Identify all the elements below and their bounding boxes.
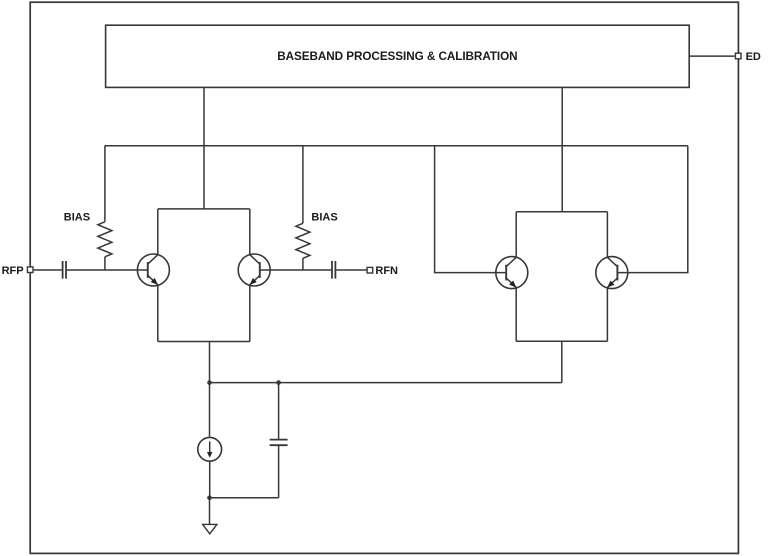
wire rail drop to Q4 base: [618, 146, 688, 273]
wire baseband to right pair collectors: [561, 87, 563, 211]
wire Q2 collector: [249, 209, 251, 255]
wire Q4 emitter: [606, 288, 608, 342]
wire baseband to ED: [689, 55, 734, 57]
resistor R1 BIAS: [98, 222, 112, 257]
wire Q3 emitter: [515, 288, 517, 342]
svg-text:RFN: RFN: [375, 265, 398, 277]
wire tail bus: [210, 382, 562, 384]
wire rail drop to Q3 base: [435, 146, 506, 273]
capacitor C1 plate B: [65, 261, 67, 279]
wire Q1 emitter: [157, 285, 159, 342]
wire R1 to base node: [104, 257, 106, 270]
capacitor C1 plate A: [62, 261, 64, 279]
port RFN pad: [367, 267, 373, 273]
wire to ground symbol: [209, 498, 211, 525]
wire Q2 emitter: [249, 285, 251, 342]
wire RFP to C1: [34, 269, 62, 271]
svg-text:BIAS: BIAS: [64, 211, 90, 223]
svg-text:BIAS: BIAS: [311, 211, 337, 223]
svg-text:ED: ED: [746, 51, 761, 63]
wire Q4 collector: [606, 212, 608, 258]
capacitor C3 plate A: [270, 439, 288, 441]
junction tail node: [207, 380, 212, 385]
svg-text:RFP: RFP: [2, 265, 24, 277]
capacitor C2 plate B: [334, 261, 336, 279]
wire tail bus to C3: [278, 383, 280, 440]
baseband processing block: [106, 25, 690, 87]
wire left pair tail: [209, 342, 211, 383]
port ED pad: [735, 53, 741, 59]
current source I1: [198, 437, 222, 461]
wire right pair emitter bus: [516, 340, 607, 342]
transistor Q1: [137, 254, 169, 286]
wire rail to R1: [104, 146, 106, 222]
port RFP pad: [27, 267, 33, 273]
wire I1 to ground node: [209, 461, 211, 498]
wire right pair collector bus: [516, 211, 607, 213]
capacitor C3 plate B: [270, 444, 288, 446]
capacitor C2 plate A: [331, 261, 333, 279]
wire left pair collector bus: [158, 208, 250, 210]
wire Q2 base to C2: [260, 269, 331, 271]
wire C2 to RFN: [336, 269, 367, 271]
current source I1 arrow: [209, 441, 211, 452]
wire right pair tail: [561, 341, 563, 382]
wire ground bus: [210, 497, 279, 499]
svg-text:BASEBAND PROCESSING & CALIBRAT: BASEBAND PROCESSING & CALIBRATION: [277, 50, 517, 63]
transistor Q2: [238, 254, 270, 286]
wire Q3 collector: [515, 212, 517, 258]
wire tail to I1: [209, 383, 211, 438]
junction cap branch: [276, 380, 281, 385]
wire left pair emitter bus: [158, 341, 250, 343]
junction ground node: [207, 496, 212, 501]
wire C3 to ground bus: [278, 445, 280, 498]
wire Q1 collector: [157, 209, 159, 255]
wire rail to R2: [302, 146, 304, 224]
wire R2 to base node: [302, 258, 304, 270]
transistor Q3: [496, 257, 528, 289]
transistor Q4: [596, 257, 628, 289]
ground symbol: [203, 524, 217, 533]
wire bias rail: [105, 145, 688, 147]
wire baseband to left pair collectors: [203, 87, 205, 208]
resistor R2 BIAS: [296, 223, 310, 258]
wire C1 to Q1 base: [67, 269, 147, 271]
